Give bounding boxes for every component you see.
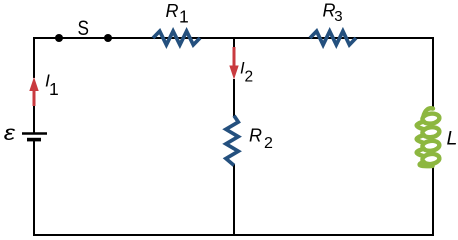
wire right lower [432,166,434,236]
inductor L coil [417,108,440,166]
svg-text:L: L [447,128,458,150]
svg-text:3: 3 [334,8,342,25]
switch S dot left [55,34,63,42]
wire middle between arrow and R2 [233,79,235,116]
switch S dot right [104,34,112,42]
svg-text:2: 2 [245,69,254,86]
svg-text:1: 1 [179,7,189,27]
resistor R1 [153,31,200,45]
wire top [34,37,433,39]
wire right upper [432,37,434,110]
wire left lower [33,140,35,236]
wire middle upper [233,38,235,48]
svg-text:R: R [249,125,262,145]
svg-text:2: 2 [264,135,273,152]
svg-text:ε: ε [4,121,16,144]
wire bottom [33,234,434,236]
wire left mid [33,104,35,133]
svg-text:S: S [78,16,89,40]
battery EMF long plate [22,132,47,134]
current arrow I1 [29,77,38,106]
wire left upper [33,37,35,78]
svg-text:1: 1 [49,79,59,99]
svg-text:R: R [166,1,179,21]
current arrow I2 [229,47,238,80]
resistor R2 [226,116,238,166]
resistor R3 [310,31,356,45]
battery EMF short plate [27,138,41,142]
wire middle lower [233,164,235,236]
